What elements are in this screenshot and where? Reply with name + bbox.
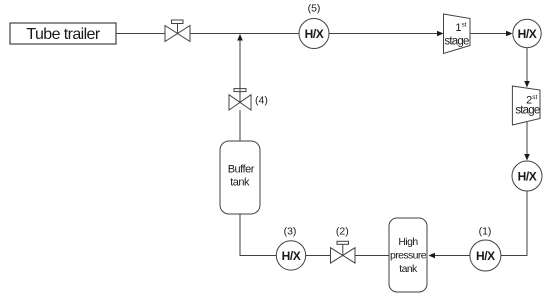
label (5)	[308, 3, 321, 15]
wire H/X top right down to 2nd stage compressor	[524, 48, 530, 88]
wire H/X (5) to 1st stage compressor	[329, 31, 444, 37]
label (2)	[336, 226, 349, 238]
wire H/X (1) to high pressure tank	[429, 253, 470, 259]
high pressure tank	[389, 218, 427, 292]
svg-text:(2): (2)	[336, 226, 349, 238]
tube trailer box	[10, 23, 116, 44]
heat exchanger H/X (5)	[299, 19, 329, 49]
heat exchanger H/X right	[512, 161, 542, 191]
svg-text:stage: stage	[444, 35, 469, 47]
wire valve V2 to H/X (3)	[306, 255, 331, 257]
svg-text:pressure: pressure	[390, 249, 427, 261]
svg-text:H/X: H/X	[282, 249, 301, 263]
svg-text:H/X: H/X	[518, 170, 537, 184]
label (4)	[255, 94, 268, 106]
buffer tank	[220, 141, 260, 214]
wire valve V4 up to junction (arrow up)	[237, 34, 243, 95]
svg-text:Buffer: Buffer	[228, 163, 255, 175]
valve V4	[229, 89, 251, 111]
svg-text:stage: stage	[515, 104, 540, 116]
wire H/X right down and left to H/X (1)	[501, 191, 527, 256]
valve V2	[331, 241, 356, 263]
valve V1	[165, 20, 190, 42]
compressor 1st stage	[444, 14, 471, 54]
label (3)	[284, 226, 297, 238]
svg-text:(5): (5)	[308, 3, 321, 15]
wire tank to valve V2	[355, 255, 389, 257]
svg-text:H/X: H/X	[476, 249, 495, 263]
svg-text:Tube trailer: Tube trailer	[26, 26, 100, 43]
svg-text:tank: tank	[399, 263, 418, 275]
heat exchanger H/X (3)	[276, 241, 305, 270]
wire 2nd stage to H/X right	[524, 122, 530, 161]
wire H/X (3) to buffer tank	[240, 214, 276, 256]
heat exchanger H/X (1)	[470, 240, 501, 271]
compressor 2nd stage	[512, 86, 540, 125]
svg-text:High: High	[398, 236, 418, 248]
wire buffer tank up to valve V4	[239, 110, 241, 141]
svg-text:tank: tank	[230, 177, 250, 189]
svg-text:(3): (3)	[284, 226, 297, 238]
svg-text:(4): (4)	[255, 94, 268, 106]
wire 1st stage to H/X top right	[470, 31, 513, 37]
wire tube trailer to valve V1	[116, 33, 165, 35]
svg-text:H/X: H/X	[305, 27, 324, 41]
svg-text:H/X: H/X	[518, 27, 537, 41]
wire valve V1 to H/X (5)	[190, 33, 299, 35]
svg-text:(1): (1)	[479, 226, 492, 238]
label (1)	[479, 226, 492, 238]
heat exchanger H/X top right	[513, 19, 541, 47]
